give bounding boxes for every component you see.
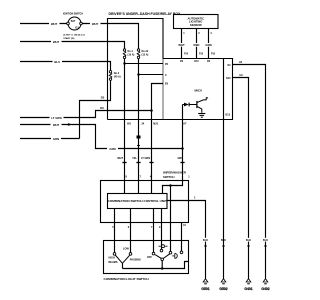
wire from IG1 to fuse No.2 (WHT) bbox=[82, 24, 138, 50]
svg-text:BLK: BLK bbox=[246, 239, 251, 242]
svg-text:OFF: OFF bbox=[147, 256, 152, 259]
fuse No.2 (15 A) bbox=[137, 49, 139, 51]
svg-text:BEAMS: BEAMS bbox=[109, 261, 118, 264]
small tick on fuse No.2 wire bbox=[137, 145, 140, 147]
fuse No.2 output down and tap to MICU (C) bbox=[137, 59, 139, 194]
svg-text:7: 7 bbox=[151, 226, 153, 229]
wire from assembly box edge down to headlight contact bbox=[180, 223, 182, 252]
junction dot LT GRN / E9 net bbox=[150, 109, 153, 112]
ground wire G501 markers bbox=[202, 238, 209, 242]
wire W2 battery feed to fuse No.1 (WHT) bbox=[20, 42, 125, 50]
svg-text:P13: P13 bbox=[199, 53, 204, 55]
svg-text:N21: N21 bbox=[153, 122, 158, 126]
wire W4 (LT GRN) with jog into box bbox=[20, 111, 152, 118]
combination switch assembly box bbox=[101, 181, 189, 223]
headlight contact from junction branch bbox=[169, 251, 172, 254]
ground symbol G401 bbox=[246, 279, 251, 282]
svg-text:D8: D8 bbox=[207, 61, 211, 63]
svg-text:MICU: MICU bbox=[195, 89, 203, 93]
svg-text:LT GRN: LT GRN bbox=[51, 116, 61, 120]
wire below box to ground G502 bbox=[222, 120, 224, 279]
light switch parking contact bbox=[160, 249, 163, 252]
svg-text:YEL: YEL bbox=[132, 157, 137, 160]
right exit net H9 to ground G401 bbox=[233, 78, 249, 279]
svg-text:E9: E9 bbox=[165, 83, 169, 86]
svg-text:C: C bbox=[165, 74, 167, 77]
fuse No.4 (40 A) bbox=[109, 71, 111, 73]
svg-text:BAT: BAT bbox=[71, 20, 76, 23]
svg-text:WHT: WHT bbox=[117, 157, 123, 160]
svg-text:WHT: WHT bbox=[178, 43, 185, 47]
svg-text:GRN: GRN bbox=[109, 147, 115, 151]
svg-text:(10 A): (10 A) bbox=[128, 54, 135, 57]
svg-text:(I) HOT in ON (II) and: (I) HOT in ON (II) and bbox=[63, 35, 85, 37]
svg-text:N4: N4 bbox=[227, 64, 231, 67]
svg-text:H2: H2 bbox=[239, 61, 243, 64]
dimmer switch high beam contact bbox=[113, 253, 116, 256]
wire W1 battery feed to ignition switch (WHT) bbox=[20, 22, 67, 24]
svg-text:P15: P15 bbox=[211, 53, 216, 55]
control unit outputs down to light switch bbox=[113, 209, 115, 253]
svg-text:SWITCH: SWITCH bbox=[163, 175, 174, 179]
rotary common stem to bus bbox=[161, 261, 163, 269]
sensor pin 1 wire (WHT) bbox=[180, 29, 182, 59]
ground wire G402 markers bbox=[262, 238, 269, 242]
svg-text:D10: D10 bbox=[194, 61, 199, 63]
svg-text:P6: P6 bbox=[165, 63, 169, 66]
sensor pin 4 wire (GRN) bbox=[207, 29, 209, 59]
svg-text:COMBINATION LIGHT SWITCH: COMBINATION LIGHT SWITCH bbox=[104, 277, 150, 281]
ground symbol G501 bbox=[203, 279, 208, 282]
svg-text:BLK: BLK bbox=[203, 239, 208, 242]
common bus inside light switch bbox=[123, 262, 189, 269]
ground wire G401 markers bbox=[245, 238, 252, 242]
svg-text:No.4: No.4 bbox=[114, 72, 120, 75]
svg-text:J4: J4 bbox=[141, 122, 144, 126]
svg-text:N10: N10 bbox=[226, 77, 231, 80]
junction dot inside assembly bbox=[169, 184, 172, 187]
ignition switch bbox=[68, 17, 81, 30]
svg-text:D6: D6 bbox=[100, 106, 104, 110]
svg-text:G401: G401 bbox=[244, 287, 252, 291]
svg-text:LOW: LOW bbox=[123, 248, 129, 251]
junction dot on common bus bbox=[161, 267, 164, 270]
ground symbol G502 bbox=[221, 279, 226, 282]
MICU internal boundary bbox=[162, 59, 164, 120]
svg-text:9: 9 bbox=[159, 226, 161, 229]
svg-text:8: 8 bbox=[126, 175, 128, 178]
svg-text:D9: D9 bbox=[180, 61, 184, 63]
svg-text:6: 6 bbox=[128, 226, 130, 229]
sensor pin 2 wire (RED) bbox=[195, 29, 197, 59]
rotary common contact bbox=[161, 258, 164, 261]
svg-text:1: 1 bbox=[183, 32, 185, 35]
svg-text:No.1: No.1 bbox=[128, 50, 134, 53]
dimmer switch passing contact bbox=[129, 253, 132, 256]
headlights symbol bbox=[172, 255, 174, 257]
svg-text:GRN: GRN bbox=[53, 137, 59, 141]
svg-text:A7: A7 bbox=[183, 122, 187, 126]
svg-text:2: 2 bbox=[194, 197, 196, 200]
svg-text:B13: B13 bbox=[226, 114, 231, 117]
wire fuse No.4 output exiting box to left bbox=[80, 80, 111, 138]
svg-text:WHT: WHT bbox=[53, 123, 60, 127]
automatic lighting sensor box bbox=[174, 15, 219, 29]
svg-text:G501: G501 bbox=[201, 287, 209, 291]
ground wire G502 markers bbox=[220, 238, 227, 242]
wire W5 (WHT) with jog down and GRN run bbox=[20, 125, 183, 149]
svg-text:WIPER/WASHER: WIPER/WASHER bbox=[163, 171, 187, 175]
parking lights symbol bbox=[159, 245, 161, 247]
fuse No.1 output down and tap to MICU (P6) bbox=[123, 59, 125, 194]
svg-text:G502: G502 bbox=[219, 287, 227, 291]
branch from junction down to light switch contact bbox=[169, 186, 171, 252]
ground symbol inside MICU bbox=[198, 112, 205, 114]
svg-text:7: 7 bbox=[140, 175, 142, 178]
svg-text:(40 A): (40 A) bbox=[114, 76, 121, 79]
svg-text:GRN: GRN bbox=[177, 157, 183, 160]
svg-text:1: 1 bbox=[188, 175, 190, 178]
control unit output to ground G501 bbox=[167, 201, 206, 279]
GRN wire into control unit with junction bbox=[163, 181, 183, 194]
svg-text:START (III): START (III) bbox=[63, 37, 74, 40]
combination light switch box bbox=[104, 241, 189, 274]
svg-text:K8: K8 bbox=[127, 122, 131, 126]
ground symbol G402 bbox=[263, 279, 268, 282]
svg-text:LT GRN: LT GRN bbox=[141, 157, 150, 160]
junction dot W5/GRN to MICU output wire bbox=[181, 147, 184, 150]
fuse No.1 (10 A) bbox=[123, 49, 125, 51]
driver's under-dash fuse/relay box outline bbox=[108, 19, 233, 120]
combination switch control unit box bbox=[108, 194, 168, 209]
svg-text:No.22: No.22 bbox=[142, 50, 149, 53]
diode inside MICU bbox=[183, 104, 185, 106]
rotary wiper arms bbox=[155, 255, 161, 259]
right exit net H2 to ground G402 bbox=[233, 65, 266, 279]
sensor ground bus through box bbox=[222, 59, 224, 120]
svg-text:IGNITION SWITCH: IGNITION SWITCH bbox=[63, 14, 83, 16]
wire W3 feed to fuse No.4 (BLU) bbox=[20, 62, 111, 71]
MICU driver output wire down (GRN) bbox=[181, 105, 183, 181]
svg-text:COMBINATION SWITCH CONTROL UNI: COMBINATION SWITCH CONTROL UNIT bbox=[108, 199, 167, 203]
svg-text:SENSOR: SENSOR bbox=[190, 23, 202, 27]
svg-text:G402: G402 bbox=[261, 287, 269, 291]
svg-text:BLU: BLU bbox=[54, 60, 60, 64]
svg-text:GRN: GRN bbox=[205, 43, 211, 47]
svg-text:4: 4 bbox=[210, 32, 212, 35]
transistor inside MICU bbox=[196, 101, 198, 108]
svg-text:D5: D5 bbox=[101, 96, 105, 100]
svg-text:PASSING: PASSING bbox=[130, 259, 141, 262]
svg-text:WHT: WHT bbox=[92, 22, 99, 26]
svg-text:BLK: BLK bbox=[263, 239, 268, 242]
svg-text:10: 10 bbox=[183, 224, 186, 227]
terminal bar on fuse No.2 wire bbox=[137, 136, 141, 139]
svg-text:HIGH: HIGH bbox=[109, 257, 115, 260]
connector ticks on wires above combination switch bbox=[122, 161, 126, 164]
svg-text:2: 2 bbox=[198, 32, 200, 35]
svg-text:WHT: WHT bbox=[53, 40, 60, 44]
splice dot on W5 bbox=[68, 123, 70, 125]
svg-text:DRIVER’S UNDER–DASH FUSE/RELAY: DRIVER’S UNDER–DASH FUSE/RELAY BOX bbox=[109, 12, 182, 16]
MICU terminal E9 net down to LT GRN junction bbox=[152, 84, 164, 194]
svg-text:(15 A): (15 A) bbox=[142, 54, 149, 57]
svg-text:WHT: WHT bbox=[51, 22, 58, 26]
light switch OFF contact bbox=[152, 252, 155, 255]
svg-text:P14: P14 bbox=[184, 52, 189, 55]
svg-text:H9: H9 bbox=[240, 74, 244, 77]
svg-text:RED: RED bbox=[194, 43, 200, 47]
headlight contact from box edge wire bbox=[180, 251, 183, 254]
wire W6 (GRN) from fuse No.4 path to left bbox=[20, 137, 80, 139]
dimmer switch wiper arms bbox=[115, 255, 130, 263]
